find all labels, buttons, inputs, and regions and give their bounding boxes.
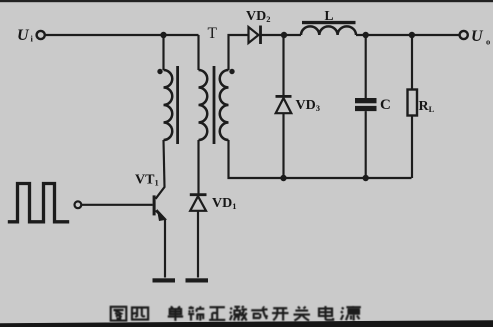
transformer core bar right (213, 66, 216, 144)
capacitor C plates (355, 98, 377, 111)
wire: primary bottom lead / collector (156, 140, 165, 199)
wire: secondary top lead to VD2 (229, 35, 249, 70)
caption char 图 (111, 307, 127, 321)
terminal: drive input (75, 201, 82, 208)
wire: VD3 bottom lead (282, 113, 284, 178)
caption char 激 (230, 306, 247, 320)
node: RL top junction (409, 32, 415, 38)
ground bar under VT1 emitter (153, 278, 176, 282)
svg-text:T: T (208, 25, 218, 42)
node: C bottom junction (363, 175, 369, 181)
caption: 图四 单端正激式开关电源 (drawn strokes) (111, 306, 361, 321)
capacitor C top lead (365, 35, 367, 98)
diode VD2 (249, 26, 261, 45)
diode VD1 (190, 195, 207, 211)
wire: primary top lead (162, 35, 164, 70)
wire: L to output terminal (356, 34, 459, 36)
square wave symbol (8, 184, 69, 222)
wire: reset winding to VD1 (197, 140, 199, 195)
polarity dot secondary (229, 69, 234, 74)
node: C top junction (363, 32, 369, 38)
caption char 式 (251, 307, 267, 320)
caption char 正 (209, 307, 225, 320)
resistor RL top lead (411, 35, 413, 90)
transistor VT1 emitter (156, 211, 165, 278)
caption char 源 (341, 306, 361, 321)
resistor RL body (408, 90, 418, 116)
wire: VD3 top lead (282, 35, 284, 95)
diode VD3 (276, 96, 292, 113)
label Uo (471, 28, 490, 47)
caption char 单 (168, 307, 183, 321)
node: junction of input rail and primary (160, 32, 166, 38)
svg-text:U: U (471, 28, 484, 45)
caption char 关 (294, 307, 311, 321)
caption char 开 (272, 308, 289, 320)
node: VD3 bottom junction (280, 175, 286, 181)
wire: reset winding top lead (197, 35, 199, 70)
transistor VT1 emitter arrow (157, 209, 167, 221)
wire: VD1 bottom lead (197, 211, 199, 278)
ground bar under VD1 (186, 278, 209, 282)
terminal: output Uo (460, 31, 468, 39)
svg-text:L: L (325, 8, 334, 23)
resistor RL bottom lead (411, 116, 413, 179)
caption char 四 (132, 308, 148, 320)
svg-text:U: U (17, 27, 30, 44)
transformer T reset winding (199, 70, 208, 140)
svg-text:C: C (380, 97, 391, 113)
caption char 端 (188, 306, 204, 320)
inductor L core bar (302, 21, 356, 24)
caption char 电 (319, 306, 333, 320)
wire: VD2 cathode to L (261, 34, 302, 36)
wire: secondary bottom rail (229, 140, 412, 178)
svg-text:o: o (486, 37, 490, 47)
capacitor C bottom lead (365, 111, 367, 178)
transformer core bar left (176, 66, 179, 144)
wire: base drive (81, 204, 152, 206)
inductor L (301, 26, 356, 35)
label Ui (17, 27, 34, 44)
terminal: input Ui (37, 31, 45, 39)
polarity dot primary (157, 69, 162, 74)
node: VD3 top junction (281, 32, 287, 38)
transistor VT1 base bar (153, 195, 156, 215)
wire: top input rail (45, 34, 199, 36)
transformer T primary winding (164, 70, 173, 140)
transformer T secondary winding (220, 70, 229, 140)
